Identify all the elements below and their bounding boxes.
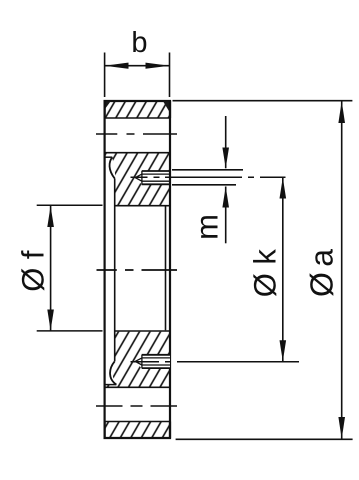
dimension b extension line left bbox=[104, 53, 106, 98]
tapped hole bottom: left end and drill tip bbox=[135, 355, 142, 368]
bore back chamfer line bbox=[165, 207, 167, 331]
dimension Øf extension line bottom bbox=[37, 330, 103, 332]
dimension Øa arrow bottom bbox=[338, 417, 345, 439]
front recess wall bbox=[114, 179, 116, 362]
dimension m upper arrowhead bbox=[222, 148, 229, 169]
bore top edge bbox=[114, 205, 170, 207]
bottom rim outline bbox=[105, 422, 170, 439]
top bolt-slot band bottom line bbox=[104, 152, 171, 154]
svg-text:Ø a: Ø a bbox=[304, 249, 340, 297]
tapped hole top: left end and drill tip bbox=[135, 171, 142, 184]
dimension b line bbox=[105, 65, 170, 67]
dimension Øa extension line bottom bbox=[176, 438, 353, 440]
lower block hatching bbox=[106, 332, 170, 387]
main centerline bbox=[97, 269, 178, 271]
right edge of flange bbox=[169, 101, 171, 438]
top rim corner mark right bbox=[163, 102, 170, 113]
dimension m upper arrow line bbox=[225, 116, 227, 168]
dimension Øk line bbox=[282, 178, 284, 362]
top rim outline bbox=[105, 101, 170, 118]
front recess step line top bbox=[105, 156, 113, 158]
dimension b arrow right bbox=[146, 63, 170, 69]
bore bottom edge bbox=[114, 330, 170, 332]
svg-text:b: b bbox=[131, 27, 147, 59]
top rim corner mark left bbox=[105, 102, 111, 110]
upper block hatching bbox=[106, 153, 170, 205]
dimension Øk arrow top bbox=[280, 178, 287, 199]
dimension Øk arrow bottom bbox=[280, 340, 287, 361]
left edge of flange bbox=[103, 101, 105, 438]
dimension Øf extension line top bbox=[37, 204, 103, 206]
dimension m lower arrow line bbox=[225, 187, 227, 244]
svg-text:m: m bbox=[190, 214, 225, 240]
lower block hole cutout bbox=[142, 355, 170, 368]
tapped hole bottom centerline bbox=[131, 361, 300, 363]
dimension Øf arrow top bbox=[47, 206, 54, 227]
dimension Øa extension line top bbox=[173, 100, 353, 102]
front recess fillet curve top bbox=[110, 157, 115, 178]
dimension m extension line bottom bbox=[172, 184, 236, 186]
dimension Øf arrow bottom bbox=[47, 310, 54, 331]
front recess fillet curve bottom bbox=[110, 361, 116, 384]
tapped hole bottom: outer thread lines bbox=[142, 355, 170, 368]
svg-text:Ø k: Ø k bbox=[248, 249, 283, 298]
top rim hatching bbox=[105, 102, 170, 119]
dimension Øf line bbox=[50, 206, 52, 331]
bottom bolt-slot centerline bbox=[96, 405, 177, 407]
svg-text:Ø f: Ø f bbox=[16, 250, 51, 292]
dimension Øa line bbox=[341, 101, 343, 439]
dimension m lower arrowhead bbox=[222, 187, 229, 208]
dimension b arrow left bbox=[105, 63, 129, 69]
bottom bolt-slot band bottom line bbox=[104, 421, 171, 423]
top bolt-slot centerline bbox=[96, 133, 177, 135]
top rim bottom line bbox=[104, 117, 171, 119]
tapped hole bottom: core hole lines bbox=[142, 358, 170, 365]
bottom rim hatching bbox=[105, 422, 170, 438]
dimension Øa arrow top bbox=[338, 101, 345, 123]
dimension m extension line top bbox=[172, 169, 243, 171]
tapped hole top: outer thread lines bbox=[142, 171, 170, 184]
lower block bottom line bbox=[104, 386, 171, 388]
upper block hole cutout bbox=[142, 171, 170, 184]
dimension b extension line right bbox=[169, 53, 171, 98]
front recess step line bottom bbox=[105, 384, 117, 386]
tapped hole top: core hole lines bbox=[142, 174, 170, 181]
tapped hole top centerline bbox=[131, 176, 286, 178]
